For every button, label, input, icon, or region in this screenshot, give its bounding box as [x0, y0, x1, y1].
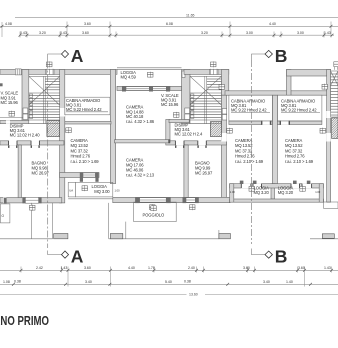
svg-text:CAMERA: CAMERA: [235, 138, 253, 143]
svg-text:MC 37.32: MC 37.32: [71, 148, 89, 153]
svg-text:6.08: 6.08: [166, 22, 173, 26]
svg-text:3.20: 3.20: [201, 31, 208, 35]
svg-text:0.43: 0.43: [60, 31, 67, 35]
svg-text:1.00: 1.00: [230, 190, 236, 194]
svg-text:POGGIOLO: POGGIOLO: [143, 213, 165, 218]
svg-text:4.08: 4.08: [5, 22, 12, 26]
svg-text:Hmed 2.76: Hmed 2.76: [235, 154, 255, 159]
svg-text:r.a.i. 4.32 > 2.13: r.a.i. 4.32 > 2.13: [126, 173, 155, 178]
svg-text:3.20: 3.20: [39, 31, 46, 35]
svg-text:3.60: 3.60: [84, 22, 91, 26]
svg-text:3.60: 3.60: [82, 31, 89, 35]
svg-text:3.00: 3.00: [297, 31, 304, 35]
svg-text:2.40: 2.40: [188, 266, 195, 270]
svg-text:MC 9.22 Hmed 2.42: MC 9.22 Hmed 2.42: [231, 108, 267, 113]
svg-text:MQ 13.52: MQ 13.52: [235, 143, 253, 148]
svg-text:CAMERA: CAMERA: [285, 138, 303, 143]
svg-text:3.40: 3.40: [85, 280, 92, 284]
svg-text:r.a.i. 2.10 > 1.69: r.a.i. 2.10 > 1.69: [71, 159, 100, 164]
svg-text:3.60: 3.60: [84, 266, 91, 270]
svg-text:A: A: [71, 46, 84, 66]
svg-text:MC 9.22 Hmed 2.42: MC 9.22 Hmed 2.42: [66, 107, 102, 112]
svg-text:1.40: 1.40: [286, 280, 293, 284]
svg-text:1.00: 1.00: [115, 189, 121, 193]
svg-text:0.38: 0.38: [184, 279, 191, 283]
svg-text:MC 15.96: MC 15.96: [1, 100, 19, 105]
svg-text:0.38: 0.38: [14, 279, 21, 283]
svg-text:MQ 13.52: MQ 13.52: [71, 143, 89, 148]
svg-text:CAMERA: CAMERA: [71, 138, 89, 143]
svg-text:11.65: 11.65: [186, 13, 195, 17]
svg-text:B: B: [275, 46, 288, 66]
svg-text:MQ 3.20: MQ 3.20: [254, 190, 270, 195]
svg-text:1.43: 1.43: [324, 266, 331, 270]
svg-text:1.43: 1.43: [61, 266, 68, 270]
svg-text:Hmed 2.76: Hmed 2.76: [285, 154, 305, 159]
svg-text:B: B: [275, 247, 288, 267]
svg-text:r.a.i. 2.10 > 1.69: r.a.i. 2.10 > 1.69: [285, 159, 314, 164]
svg-text:1.43: 1.43: [324, 31, 331, 35]
svg-text:MC 37.32: MC 37.32: [235, 148, 253, 153]
svg-text:4.40: 4.40: [128, 266, 135, 270]
svg-text:A: A: [71, 247, 84, 267]
svg-text:1.70: 1.70: [148, 266, 155, 270]
svg-text:MC 12.02 H 2.40: MC 12.02 H 2.40: [10, 133, 41, 138]
svg-text:UA: UA: [69, 189, 73, 193]
svg-text:MC 26.97: MC 26.97: [195, 171, 213, 176]
svg-text:MQ 3.20: MQ 3.20: [278, 190, 294, 195]
svg-text:MC 37.32: MC 37.32: [285, 148, 303, 153]
svg-text:Hmed 2.76: Hmed 2.76: [71, 154, 91, 159]
svg-text:13.60: 13.60: [189, 292, 198, 296]
svg-text:1.08: 1.08: [3, 280, 10, 284]
svg-text:MQ 3.00: MQ 3.00: [94, 189, 110, 194]
svg-text:3.60: 3.60: [243, 266, 250, 270]
svg-text:ANO PRIMO: ANO PRIMO: [0, 313, 49, 328]
svg-text:MQ 13.52: MQ 13.52: [285, 143, 303, 148]
svg-text:3.60: 3.60: [298, 266, 305, 270]
svg-text:4.40: 4.40: [269, 22, 276, 26]
svg-text:3.40: 3.40: [263, 280, 270, 284]
svg-text:5.40: 5.40: [165, 280, 172, 284]
svg-text:MC 9.22 Hmed 2.42: MC 9.22 Hmed 2.42: [281, 108, 317, 113]
svg-text:r.a.i. 4.32 > 1.86: r.a.i. 4.32 > 1.86: [126, 119, 155, 124]
svg-text:MC 26.97: MC 26.97: [32, 171, 50, 176]
svg-text:3.00: 3.00: [246, 31, 253, 35]
svg-text:MC 12.02 H 2.4: MC 12.02 H 2.4: [175, 132, 203, 137]
svg-text:r.a.i. 2.10 > 1.69: r.a.i. 2.10 > 1.69: [235, 159, 264, 164]
svg-text:1.00: 1.00: [315, 190, 321, 194]
svg-text:MC 15.96: MC 15.96: [161, 102, 179, 107]
svg-text:MQ 4.59: MQ 4.59: [121, 75, 137, 80]
svg-text:0.43: 0.43: [20, 31, 27, 35]
svg-text:2.42: 2.42: [36, 266, 43, 270]
